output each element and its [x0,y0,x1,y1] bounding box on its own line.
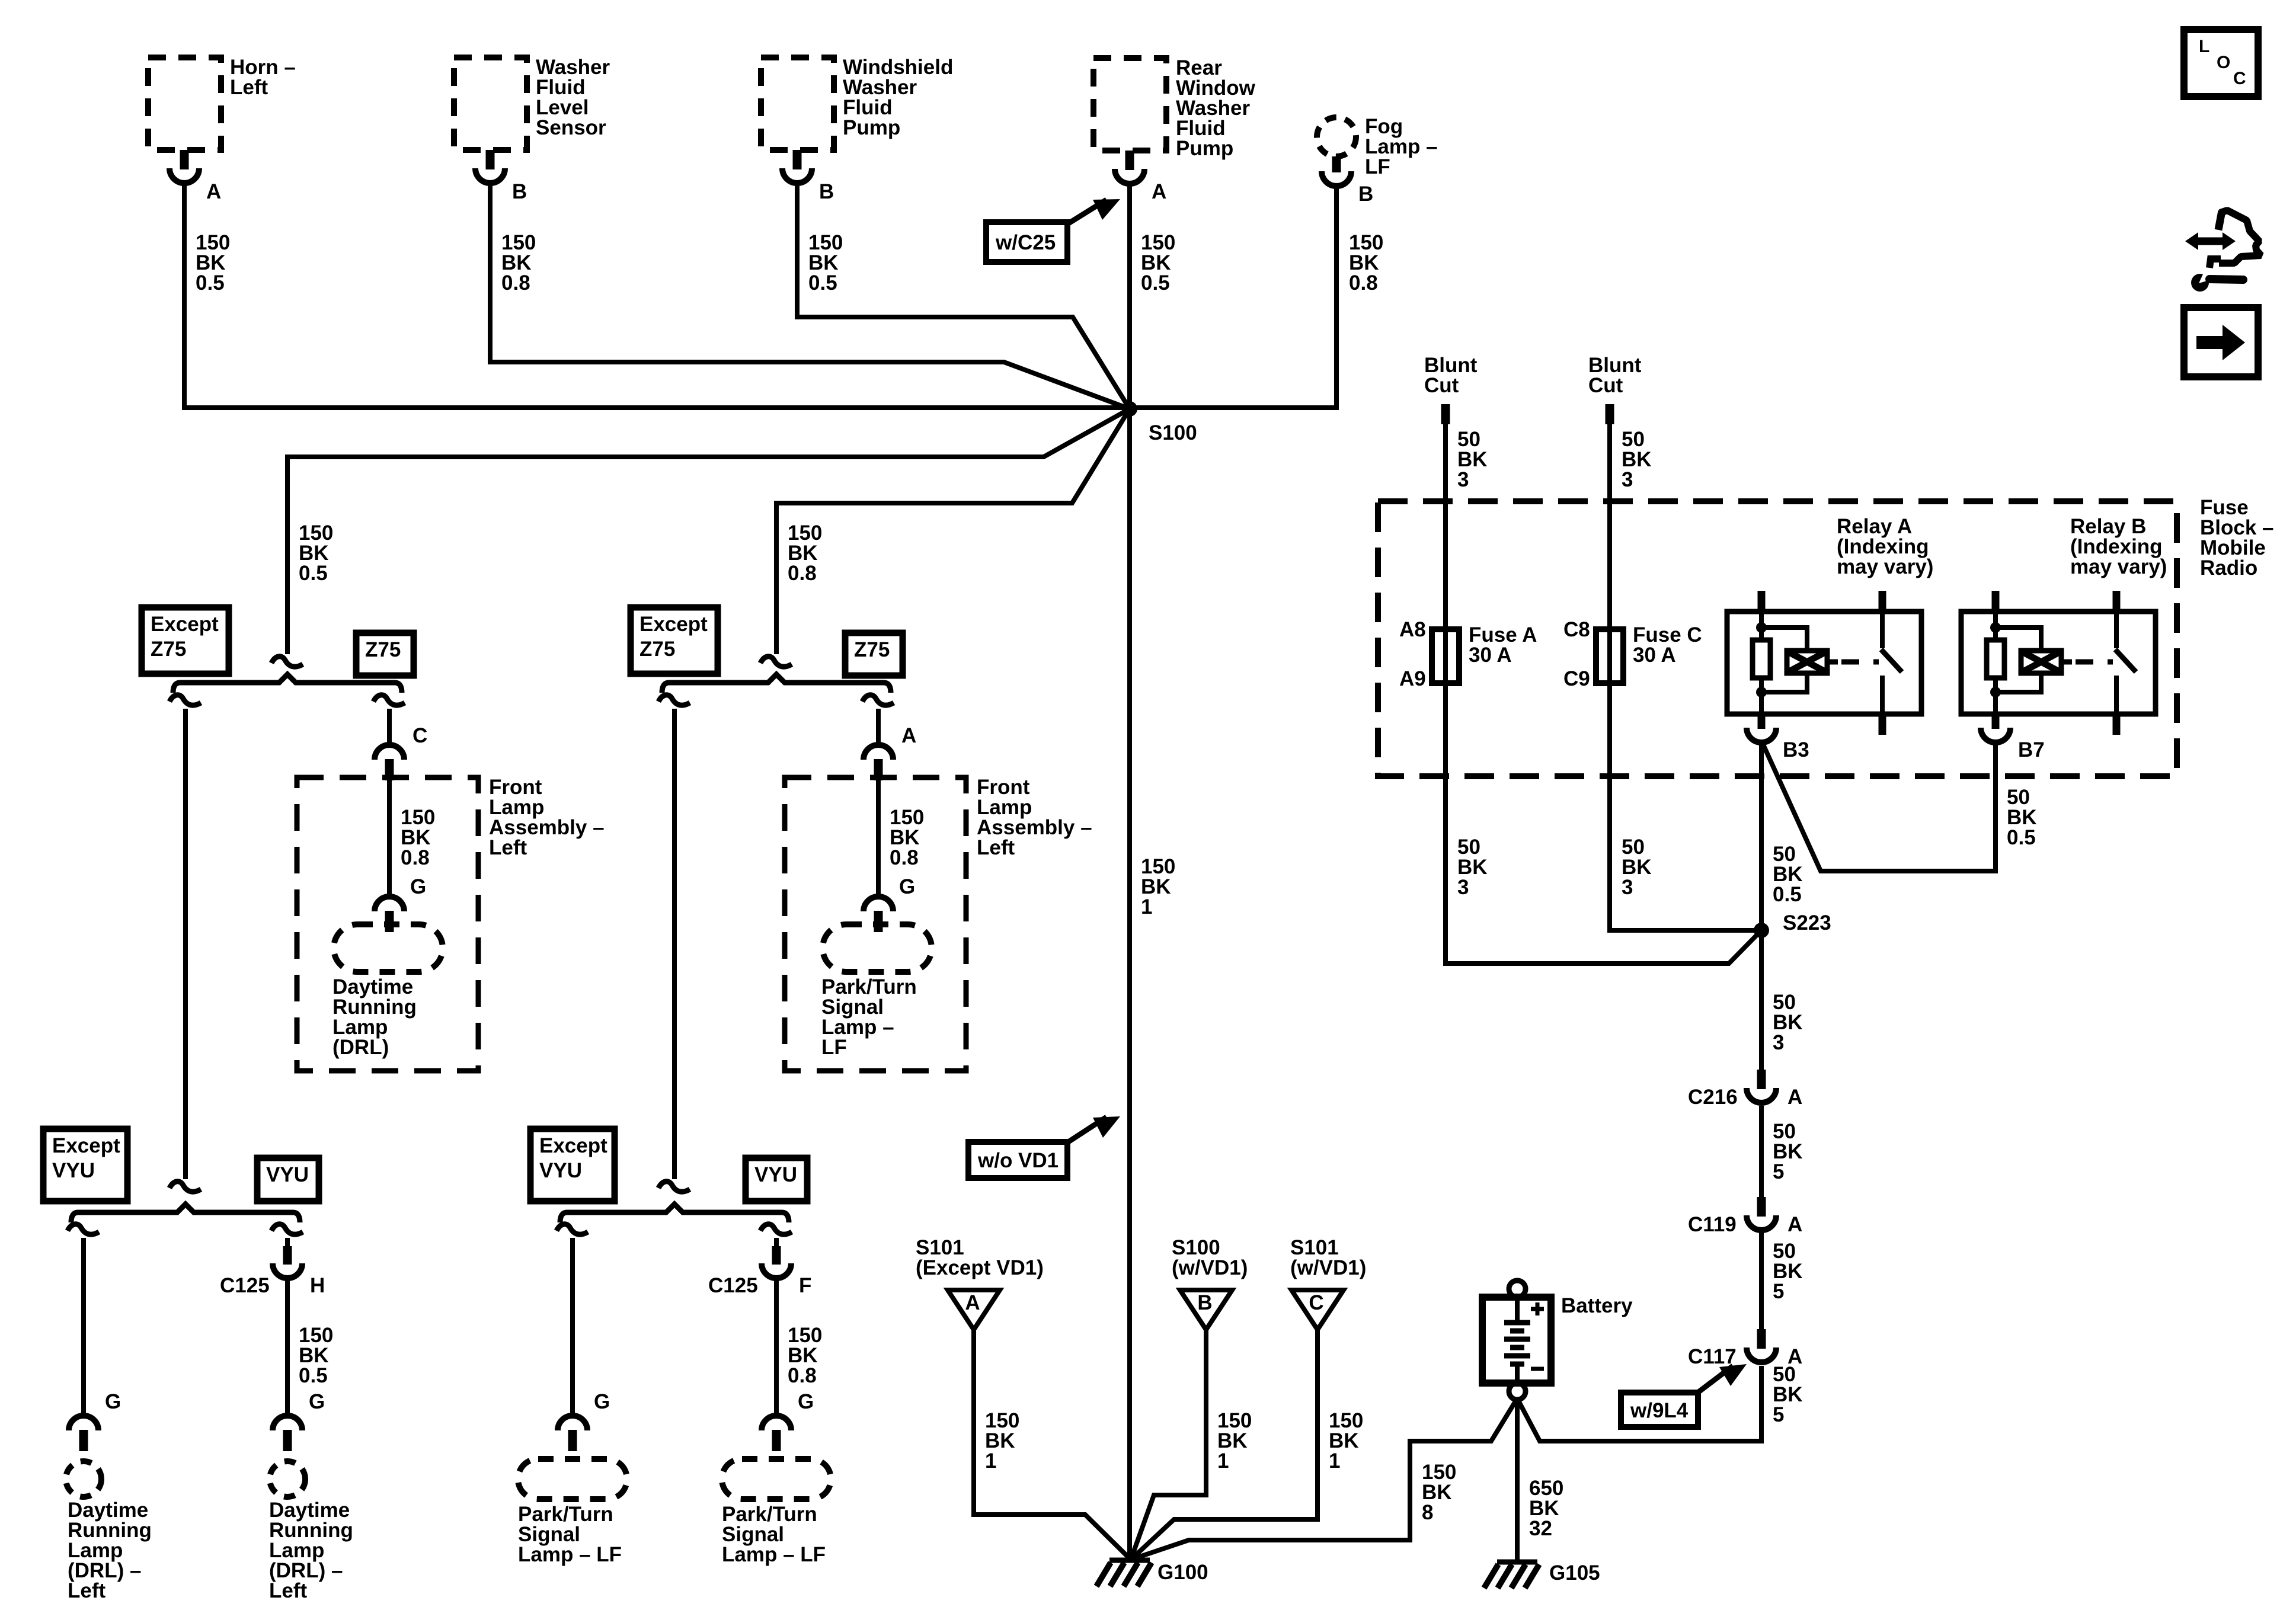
wire 150 BK 0.8 from S100 to right Z75 brace [776,409,1130,654]
daytime running lamp DRL (dashed circle, VYU) [270,1461,305,1497]
svg-text:G: G [594,1390,610,1413]
svg-text:Z75: Z75 [854,638,890,661]
branch break VYU right [760,1224,792,1234]
wire 50 BK 3 blunt cut 1 to fuse A [1443,422,1448,687]
wire battery to C117 [1517,1366,1761,1441]
wire Z75 right branch down to connector A [876,709,881,745]
park/turn signal lamp LF (dashed stadium) [518,1459,627,1499]
wire 50 BK 3 fuse C to S223 [1610,681,1761,930]
svg-text:Left: Left [269,1579,308,1602]
wire 150 BK 0.5 from Horn A to S100 [184,183,1130,408]
svg-text:B: B [512,180,527,203]
connector pin A of Rear Window Washer Fluid Pump [1125,151,1134,170]
svg-text:C: C [412,724,427,747]
wire to park/turn lamp [570,1238,575,1416]
svg-text:L: L [2199,37,2209,56]
label box Except Z75 (left) [142,607,229,674]
connector B3 under relay A [1747,728,1776,742]
svg-text:Pump: Pump [843,116,900,139]
wire 150 BK 0.8 from C125 F to G [774,1278,779,1416]
battery negative terminal [1509,1383,1526,1400]
wire 150 BK 0.8 inside front lamp assembly [387,780,392,897]
wire 150 BK 1 from A to G100 [974,1330,1131,1560]
wire 150 BK 0.8 inside right front lamp assembly [876,780,881,897]
wire C216 to C119 [1759,1106,1764,1198]
svg-text:0.8: 0.8 [501,271,530,295]
svg-text:B: B [1358,183,1373,206]
svg-text:A: A [1787,1213,1802,1236]
svg-text:B: B [1197,1291,1212,1314]
label box Except VYU (left) [43,1129,127,1201]
svg-text:5: 5 [1773,1280,1784,1303]
svg-text:A: A [206,180,221,203]
LOC reference box [2184,30,2258,97]
ground G105 [1497,1560,1537,1565]
svg-text:8: 8 [1422,1501,1433,1524]
tag w/C25 with arrow [986,222,1067,262]
svg-text:Left: Left [489,836,527,859]
svg-text:Except: Except [639,613,708,636]
ground G100 [1109,1558,1150,1563]
option brace VYU / Except VYU (right) [560,1204,789,1222]
svg-text:A: A [1152,180,1166,203]
front lamp assembly - left (dashed box, park/turn) [785,777,966,1071]
svg-text:1: 1 [985,1449,996,1473]
wire 150 BK 0.8 from fog lamp B to S100 [1130,185,1336,408]
svg-text:G: G [309,1390,325,1413]
connector pin B of Washer Fluid Level Sensor [486,150,495,169]
wire 50 BK 3 fuse A to S223 [1446,681,1761,964]
svg-text:G100: G100 [1157,1561,1208,1584]
wire 150 BK 0.5 from S100 to left Z75 brace [287,409,1130,654]
svg-text:C: C [1309,1291,1323,1314]
svg-text:Radio: Radio [2200,556,2257,580]
splice node S223 [1754,923,1769,938]
branch break (Z75 right) [862,695,894,705]
branch break (Except Z75 left) [170,695,201,705]
svg-text:VYU: VYU [539,1159,582,1182]
relay A (indexing may vary) [1727,612,1921,714]
svg-text:A8: A8 [1399,618,1426,641]
svg-text:LF: LF [1365,155,1390,178]
svg-text:w/C25: w/C25 [995,231,1056,254]
svg-text:VYU: VYU [754,1163,797,1186]
park/turn signal lamp LF (dashed stadium) [823,924,932,972]
svg-text:0.8: 0.8 [788,1364,817,1387]
wire to DRL left lamp [81,1238,86,1416]
svg-text:5: 5 [1773,1160,1784,1183]
svg-text:(w/VD1): (w/VD1) [1172,1256,1248,1279]
svg-text:1: 1 [1141,895,1152,918]
svg-text:VYU: VYU [52,1159,95,1182]
branch break (Except Z75 right) [658,695,690,705]
svg-text:Left: Left [68,1579,106,1602]
svg-text:Lamp – LF: Lamp – LF [518,1543,622,1566]
daytime running lamp DRL left (dashed circle) [66,1461,101,1497]
service/diagnostics dog icon with double arrow and wrench [2218,211,2222,230]
svg-text:0.8: 0.8 [890,846,919,869]
svg-text:C8: C8 [1563,618,1590,641]
svg-text:Left: Left [230,76,268,99]
tag w/9L4 with arrow [1621,1393,1698,1427]
component Rear Window Washer Fluid Pump (dashed box) [1093,58,1166,151]
component Horn - Left (dashed box) [148,57,221,150]
svg-text:30 A: 30 A [1469,644,1512,667]
option brace Z75 / Except Z75 (right) [662,674,891,693]
svg-text:C: C [2233,69,2246,88]
svg-text:B7: B7 [2018,738,2045,761]
svg-text:(w/VD1): (w/VD1) [1290,1256,1366,1279]
label box Except Z75 (right) [631,607,718,674]
daytime running lamp DRL (dashed stadium) [334,924,443,972]
svg-text:32: 32 [1529,1517,1552,1540]
wire 50 BK 3 blunt cut 2 to fuse C [1607,422,1612,687]
svg-text:Cut: Cut [1588,374,1623,397]
component Fog Lamp - LF (dashed circle) [1317,117,1356,156]
svg-text:0.5: 0.5 [1773,883,1802,906]
svg-text:A9: A9 [1399,667,1426,690]
wire 650 BK 32 battery to G105 [1515,1398,1520,1561]
label box Except VYU (right) [530,1129,615,1201]
svg-text:H: H [310,1274,325,1297]
svg-text:may vary): may vary) [2070,555,2167,578]
wire break symbol above left Z75 brace [271,657,303,667]
fuse C 30A [1596,629,1623,683]
component Windshield Washer Fluid Pump (dashed box) [761,57,834,150]
svg-text:G: G [899,875,915,898]
connector C125 pin H [283,1246,292,1265]
svg-text:1: 1 [1329,1449,1340,1473]
svg-text:5: 5 [1773,1403,1784,1426]
branch break VYU left [271,1224,303,1234]
connector pin B of Fog Lamp [1332,156,1341,172]
svg-text:B: B [819,180,834,203]
relay B (indexing may vary) [1961,612,2156,714]
svg-text:(Except VD1): (Except VD1) [916,1256,1044,1279]
label box Z75 (left) [356,633,414,676]
branch break Except VYU left [68,1224,99,1234]
connector C125 pin F [772,1246,781,1265]
svg-text:0.5: 0.5 [299,562,328,585]
svg-text:Z75: Z75 [639,638,675,661]
wire Except-Z75 right branch down to VYU brace [672,709,677,1179]
svg-text:C125: C125 [708,1274,758,1297]
svg-text:Battery: Battery [1561,1294,1633,1317]
svg-text:O: O [2217,53,2230,72]
park/turn signal lamp LF (dashed stadium, VYU) [722,1459,831,1499]
svg-text:Sensor: Sensor [536,116,606,139]
svg-text:LF: LF [821,1036,847,1059]
minus sign [1531,1367,1544,1371]
svg-text:3: 3 [1622,468,1633,491]
front lamp assembly - left (dashed box, DRL) [297,777,478,1071]
option brace VYU / Except VYU (left) [71,1204,300,1222]
svg-text:Except: Except [151,613,219,636]
svg-text:C117: C117 [1688,1345,1737,1368]
wire 150 BK 1 from C to G100 [1131,1330,1318,1560]
svg-text:0.8: 0.8 [1349,271,1378,295]
svg-text:Z75: Z75 [365,638,401,661]
wire 50 BK 0.5 B3 to S223 [1759,741,1764,930]
svg-text:S100: S100 [1149,421,1197,444]
wire 150 BK 0.5 from C125 H to G [285,1278,290,1416]
battery internal cells [1515,1297,1520,1321]
svg-text:w/9L4: w/9L4 [1630,1399,1689,1422]
option brace Z75 / Except Z75 (left) [173,674,402,693]
splice node S100 [1122,401,1137,417]
wire 150 BK 1 from B to G100 [1131,1330,1206,1560]
svg-text:3: 3 [1457,468,1469,491]
svg-text:Lamp – LF: Lamp – LF [722,1543,826,1566]
svg-text:B3: B3 [1783,738,1809,761]
svg-text:Except: Except [539,1134,607,1157]
svg-text:may vary): may vary) [1837,555,1933,578]
svg-text:Pump: Pump [1176,137,1233,160]
svg-text:G: G [105,1390,121,1413]
label box VYU (left) [257,1158,319,1201]
wire 50 BK 3 S223 to C216 [1759,930,1764,1071]
svg-text:A: A [901,724,916,747]
wire Z75 branch down to connector C [387,709,392,745]
svg-text:3: 3 [1622,876,1633,899]
svg-text:30 A: 30 A [1633,644,1676,667]
svg-text:w/o VD1: w/o VD1 [977,1149,1059,1172]
branch break Except VYU right [557,1224,588,1234]
battery box [1482,1297,1551,1383]
svg-text:S223: S223 [1783,911,1831,934]
svg-text:Except: Except [52,1134,120,1157]
svg-text:A: A [1787,1086,1802,1109]
svg-text:C119: C119 [1688,1213,1737,1236]
svg-text:C216: C216 [1688,1086,1738,1109]
next-page arrow box [2184,308,2258,377]
svg-text:A: A [965,1291,980,1314]
branch break (Z75 left) [373,695,405,705]
svg-text:0.8: 0.8 [788,562,817,585]
connector pin A of Horn [180,150,189,169]
svg-text:Cut: Cut [1424,374,1459,397]
connector B7 under relay B [1981,728,2010,742]
svg-text:G: G [798,1390,814,1413]
wire break above right Z75 brace [760,657,792,667]
wire 150 BK 1 main run from S100 to G100 [1127,409,1132,1560]
label box Z75 (right) [845,633,903,676]
wire 150 BK 0.5 from windshield pump B to S100 [797,183,1130,409]
svg-text:0.5: 0.5 [196,271,225,295]
svg-text:0.5: 0.5 [2007,826,2036,849]
svg-text:(DRL): (DRL) [332,1036,389,1059]
svg-text:1: 1 [1217,1449,1229,1473]
svg-text:3: 3 [1773,1031,1784,1054]
svg-text:VYU: VYU [266,1163,309,1186]
svg-text:0.5: 0.5 [299,1364,328,1387]
tag w/o VD1 with arrow [968,1142,1067,1178]
wire C119 to C117 [1759,1233,1764,1330]
plus sign [1531,1307,1544,1311]
svg-text:Z75: Z75 [151,638,186,661]
wire 50 BK 0.5 B3 to B7 [1761,741,1996,871]
svg-text:C9: C9 [1563,667,1590,690]
connector pin B of Windshield Washer Fluid Pump [793,150,802,169]
wire 150 BK 0.5 from rear pump A to S100 [1127,183,1132,409]
svg-text:Left: Left [977,836,1015,859]
svg-text:0.8: 0.8 [401,846,430,869]
svg-text:G105: G105 [1549,1561,1600,1585]
battery positive terminal [1509,1281,1526,1297]
wire 150 BK 0.8 from sensor B to S100 [490,183,1130,409]
wire 150 BK 8 battery to G100 [1131,1398,1517,1560]
fuse block - mobile radio (dashed box) [1378,501,2177,776]
svg-text:0.5: 0.5 [1141,271,1170,295]
fuse A 30A [1432,629,1459,683]
component Washer Fluid Level Sensor (dashed box) [454,57,527,150]
svg-text:0.5: 0.5 [808,271,837,295]
svg-text:G: G [410,875,426,898]
label box VYU (right) [746,1158,807,1201]
svg-text:3: 3 [1457,876,1469,899]
svg-text:C125: C125 [220,1274,270,1297]
wire Except-Z75 branch down to VYU brace [183,709,188,1179]
svg-text:F: F [799,1274,811,1297]
